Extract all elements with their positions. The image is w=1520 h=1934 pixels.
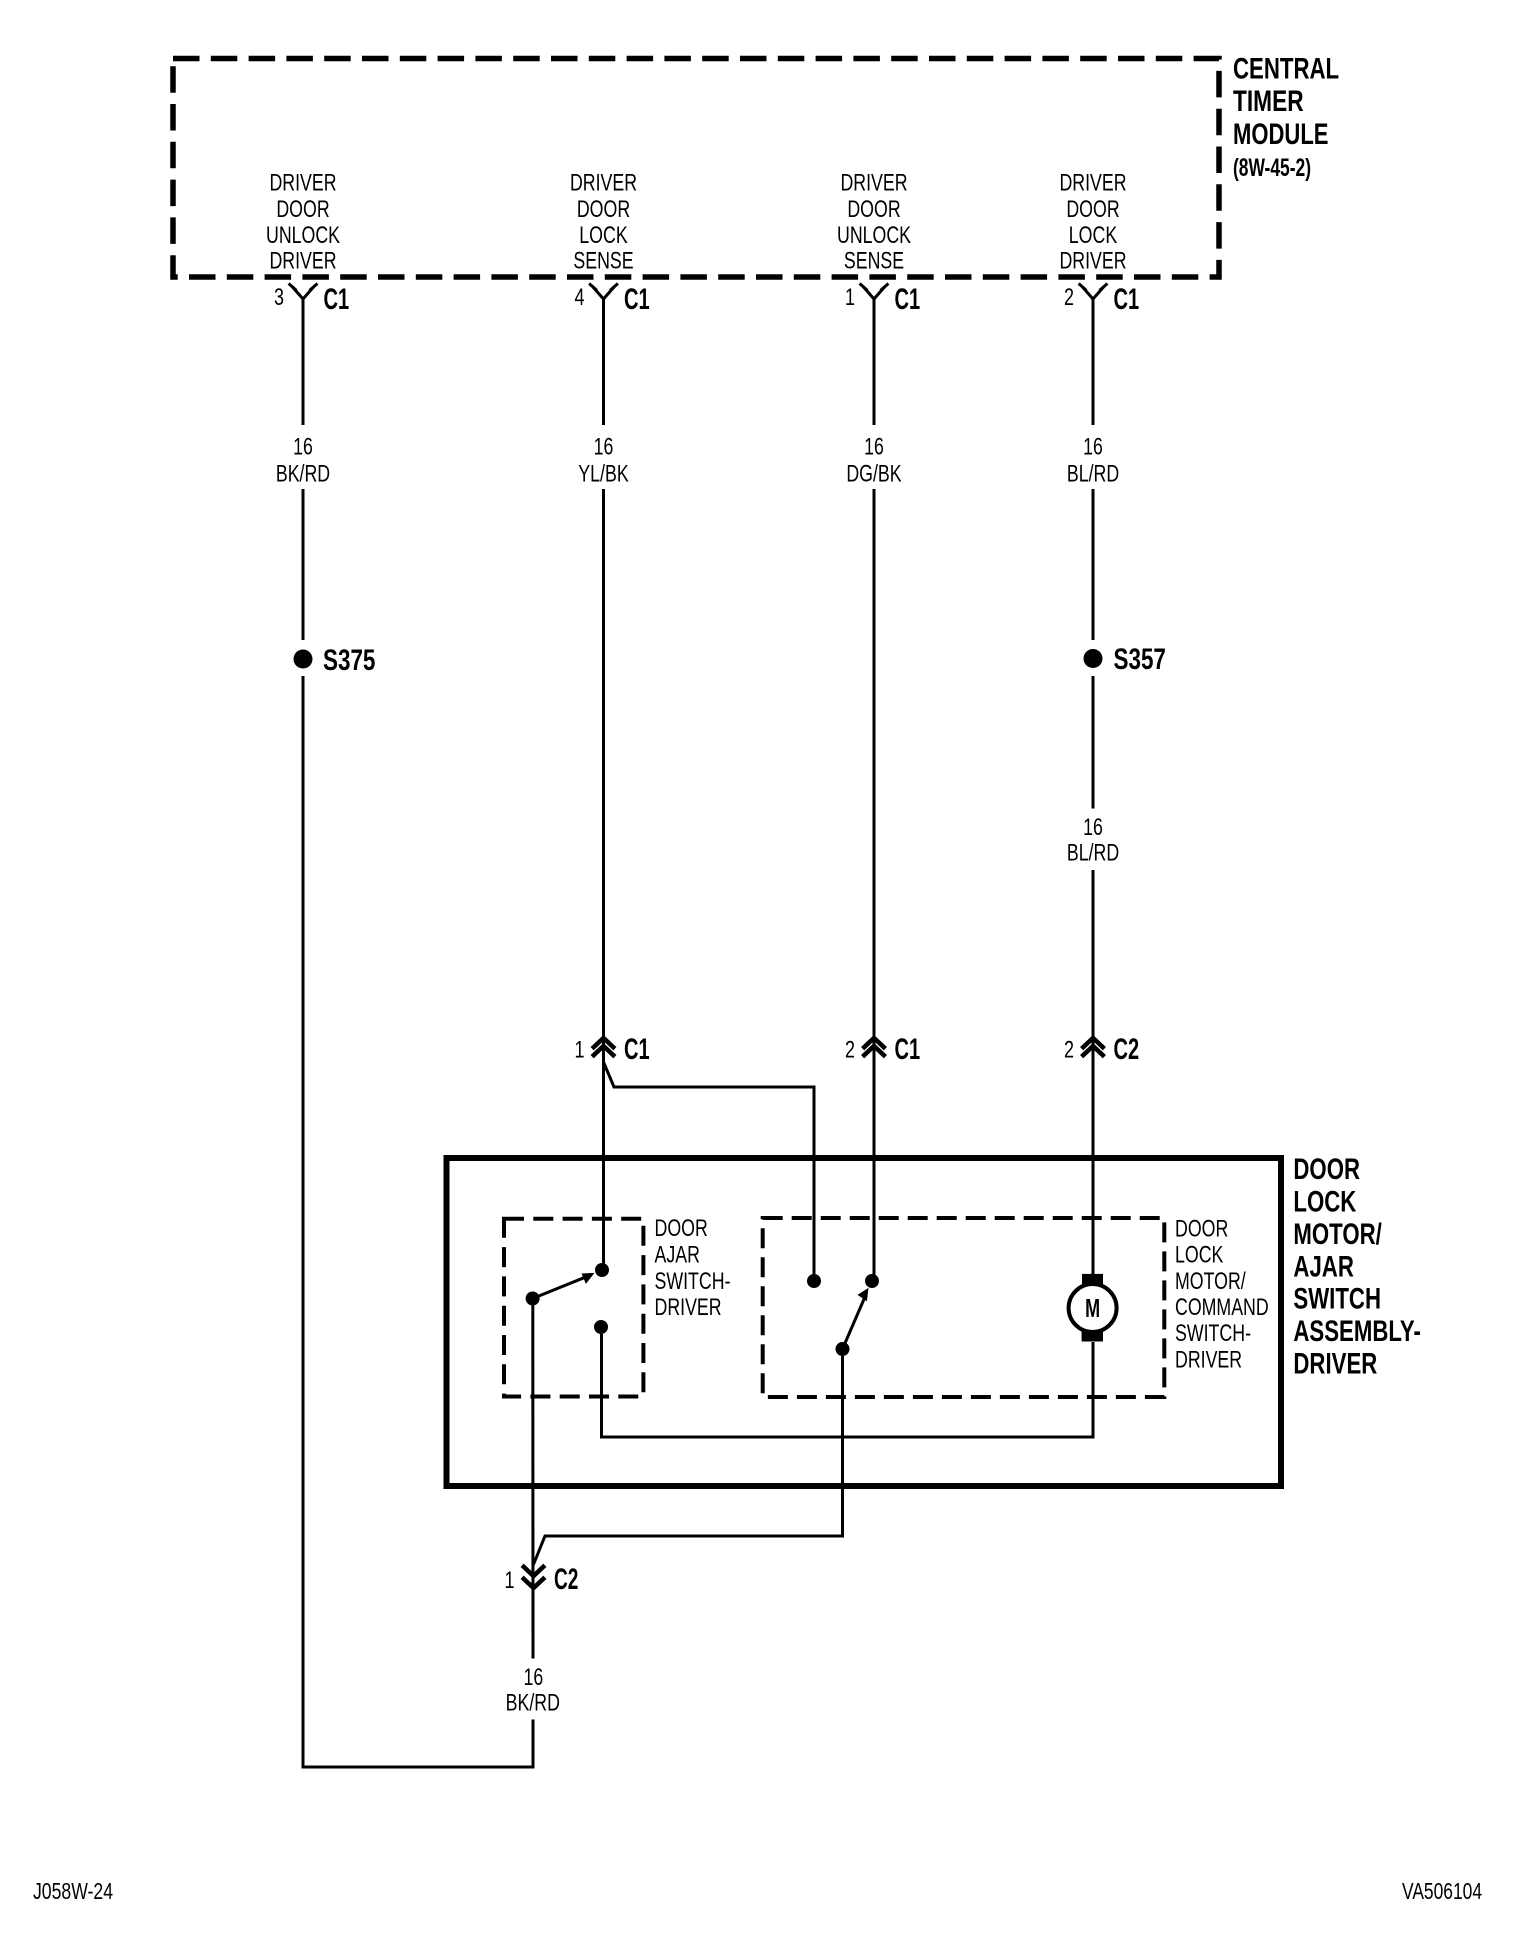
connector C1 pin 1 (Y symbol) [860, 284, 889, 300]
svg-text:DRIVER: DRIVER [570, 170, 637, 197]
svg-text:VA506104: VA506104 [1402, 1878, 1482, 1904]
svg-text:SENSE: SENSE [844, 248, 904, 275]
svg-text:DOOR: DOOR [655, 1215, 708, 1242]
in-line connector C2 pin 2 (double chevron up) [1082, 1038, 1105, 1057]
wire from ajar common down to C2 connector [531, 1305, 534, 1659]
svg-text:TIMER: TIMER [1233, 85, 1304, 118]
wire below C2 connector (BK/RD) [532, 1589, 535, 1659]
svg-text:C2: C2 [1114, 1033, 1140, 1066]
svg-text:BL/RD: BL/RD [1067, 840, 1119, 867]
svg-text:1: 1 [845, 284, 855, 311]
in-line connector C1 pin 1 (double chevron up) [592, 1038, 615, 1057]
svg-text:DRIVER: DRIVER [269, 248, 336, 275]
svg-text:DRIVER: DRIVER [1059, 170, 1126, 197]
svg-text:4: 4 [575, 284, 585, 311]
svg-text:MOTOR/: MOTOR/ [1293, 1218, 1382, 1251]
svg-text:C1: C1 [624, 283, 650, 316]
svg-text:DRIVER: DRIVER [1059, 248, 1126, 275]
svg-text:C1: C1 [624, 1033, 650, 1066]
command switch label [1175, 1215, 1269, 1373]
svg-text:BL/RD: BL/RD [1067, 460, 1119, 487]
svg-text:BK/RD: BK/RD [276, 460, 330, 487]
pin function label: DRIVER DOOR LOCK SENSE [570, 170, 637, 275]
svg-text:BK/RD: BK/RD [506, 1690, 560, 1717]
door ajar switch label [655, 1215, 731, 1321]
svg-text:UNLOCK: UNLOCK [837, 222, 911, 249]
svg-text:C1: C1 [1114, 283, 1140, 316]
wire W3 upper segment (DG/BK) [873, 299, 876, 1281]
wire W1 upper segment (BK/RD) [302, 299, 305, 640]
svg-text:1: 1 [505, 1567, 515, 1594]
door ajar switch sub-box (dashed) [504, 1219, 643, 1397]
svg-text:DRIVER: DRIVER [1293, 1348, 1377, 1381]
wire from command common down, left, to C2 connector jog [534, 1356, 843, 1565]
command switch contact node (left) [807, 1274, 821, 1288]
svg-text:16: 16 [594, 434, 614, 461]
svg-text:MODULE: MODULE [1233, 118, 1329, 151]
ajar switch common node [526, 1292, 540, 1306]
motor M1: door lock motor [1082, 1274, 1103, 1287]
door lock motor/command switch sub-box (dashed) [763, 1218, 1165, 1397]
svg-text:DOOR: DOOR [1066, 196, 1119, 223]
in-line connector C1 pin 2 (double chevron up) [863, 1038, 886, 1057]
svg-text:(8W-45-2): (8W-45-2) [1233, 154, 1311, 182]
svg-text:S375: S375 [323, 644, 375, 677]
svg-text:DRIVER: DRIVER [269, 170, 336, 197]
svg-text:DG/BK: DG/BK [846, 460, 901, 487]
connector C1 pin 2 (Y symbol) [1079, 284, 1108, 300]
svg-text:J058W-24: J058W-24 [33, 1878, 113, 1904]
svg-text:DOOR: DOOR [1175, 1215, 1228, 1242]
svg-text:ASSEMBLY-: ASSEMBLY- [1293, 1315, 1421, 1348]
pin function label: DRIVER DOOR UNLOCK DRIVER [266, 170, 340, 275]
svg-text:DRIVER: DRIVER [655, 1294, 722, 1321]
wire W1 lower run, corner, to C2 connector [303, 676, 533, 1767]
wire W2 upper segment (YL/BK) [602, 299, 605, 1270]
svg-text:1: 1 [575, 1036, 585, 1063]
wire from motor bottom, left, up to ajar lower contact [602, 1334, 1094, 1437]
svg-text:M: M [1085, 1293, 1100, 1323]
svg-text:AJAR: AJAR [1293, 1250, 1354, 1283]
module U1: CENTRAL TIMER MODULE dashed box [173, 59, 1219, 278]
connector C1 pin 3 (Y symbol) [289, 284, 318, 300]
svg-text:3: 3 [274, 284, 284, 311]
svg-text:SENSE: SENSE [573, 248, 633, 275]
svg-text:16: 16 [864, 434, 884, 461]
svg-text:16: 16 [1083, 434, 1103, 461]
splice S357 [1084, 649, 1103, 668]
svg-text:2: 2 [845, 1036, 855, 1063]
wire branch from connector C1-1 to command switch [604, 1062, 815, 1281]
svg-text:DRIVER: DRIVER [1175, 1346, 1242, 1373]
pin function label: DRIVER DOOR UNLOCK SENSE [837, 170, 911, 275]
svg-text:AJAR: AJAR [655, 1241, 700, 1268]
command switch contact node (right) [865, 1274, 879, 1288]
ajar switch contact node (upper) [595, 1263, 609, 1277]
svg-text:2: 2 [1064, 1036, 1074, 1063]
svg-text:LOCK: LOCK [1175, 1242, 1223, 1269]
svg-text:LOCK: LOCK [1293, 1186, 1356, 1219]
wire W4 upper segment (BL/RD) [1092, 299, 1095, 1274]
command switch common node [836, 1342, 850, 1356]
svg-text:DOOR: DOOR [577, 196, 630, 223]
svg-text:SWITCH-: SWITCH- [1175, 1320, 1251, 1347]
svg-text:C2: C2 [554, 1563, 578, 1596]
svg-text:UNLOCK: UNLOCK [266, 222, 340, 249]
ajar switch contact node (lower) [594, 1320, 608, 1334]
svg-text:S357: S357 [1114, 643, 1166, 676]
svg-text:LOCK: LOCK [1069, 222, 1117, 249]
svg-text:16: 16 [1083, 814, 1103, 841]
svg-text:DRIVER: DRIVER [840, 170, 907, 197]
svg-text:C1: C1 [895, 1033, 921, 1066]
connector C1 pin 4 (Y symbol) [589, 284, 618, 300]
svg-text:DOOR: DOOR [1293, 1153, 1360, 1186]
svg-text:16: 16 [293, 434, 313, 461]
svg-text:DOOR: DOOR [276, 196, 329, 223]
svg-text:C1: C1 [895, 283, 921, 316]
assembly label [1293, 1153, 1421, 1380]
svg-text:SWITCH-: SWITCH- [655, 1268, 731, 1295]
svg-text:LOCK: LOCK [579, 222, 627, 249]
svg-text:SWITCH: SWITCH [1293, 1283, 1381, 1316]
svg-text:MOTOR/: MOTOR/ [1175, 1268, 1246, 1295]
label: CENTRAL TIMER MODULE (8W-45-2) [1233, 53, 1339, 182]
svg-text:CENTRAL: CENTRAL [1233, 53, 1339, 86]
splice S375 [294, 650, 313, 669]
ajar switch blade with arrow [533, 1276, 589, 1299]
command switch blade with arrow [843, 1295, 867, 1350]
pin function label: DRIVER DOOR LOCK DRIVER [1059, 170, 1126, 275]
svg-text:DOOR: DOOR [847, 196, 900, 223]
svg-text:C1: C1 [324, 283, 350, 316]
svg-text:16: 16 [524, 1664, 544, 1691]
svg-text:COMMAND: COMMAND [1175, 1294, 1269, 1321]
svg-text:2: 2 [1064, 284, 1074, 311]
svg-text:YL/BK: YL/BK [578, 460, 628, 487]
in-line connector C2 pin 1 (double chevron down) [522, 1565, 545, 1588]
assembly box: DOOR LOCK MOTOR/AJAR SWITCH ASSEMBLY-DRIVER [447, 1158, 1282, 1486]
